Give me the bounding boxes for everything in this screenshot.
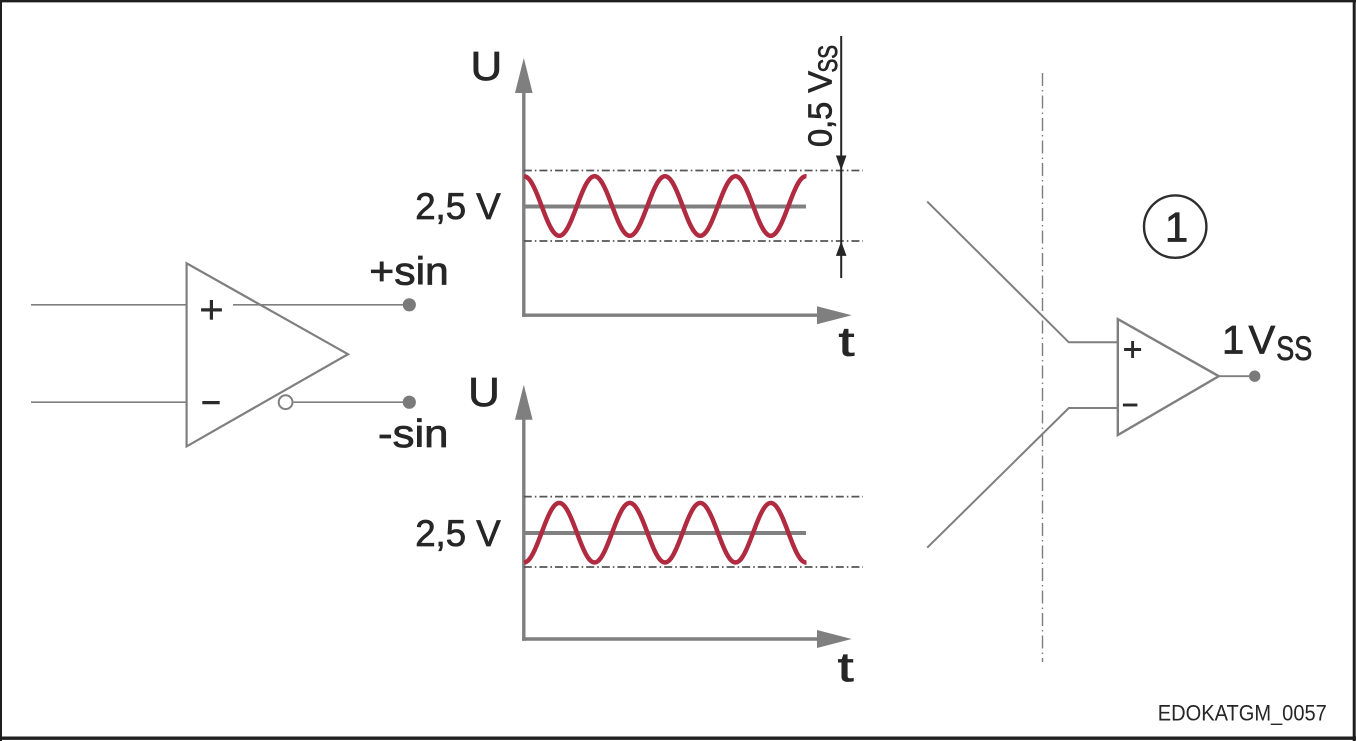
svg-text:0,5 V: 0,5 V — [801, 71, 838, 147]
svg-text:U: U — [471, 43, 503, 89]
svg-text:V: V — [1249, 318, 1276, 362]
svg-text:+sin: +sin — [369, 251, 449, 294]
svg-text:EDOKATGM_0057: EDOKATGM_0057 — [1158, 700, 1327, 725]
svg-text:t: t — [839, 318, 856, 364]
svg-text:t: t — [838, 644, 855, 690]
svg-text:U: U — [468, 369, 500, 415]
svg-text:2,5 V: 2,5 V — [415, 512, 501, 554]
svg-text:SS: SS — [813, 45, 843, 73]
svg-text:1: 1 — [1165, 204, 1188, 251]
svg-text:1: 1 — [1222, 318, 1244, 362]
svg-text:SS: SS — [1276, 330, 1312, 368]
svg-text:2,5 V: 2,5 V — [415, 185, 501, 227]
svg-text:-sin: -sin — [378, 413, 449, 456]
